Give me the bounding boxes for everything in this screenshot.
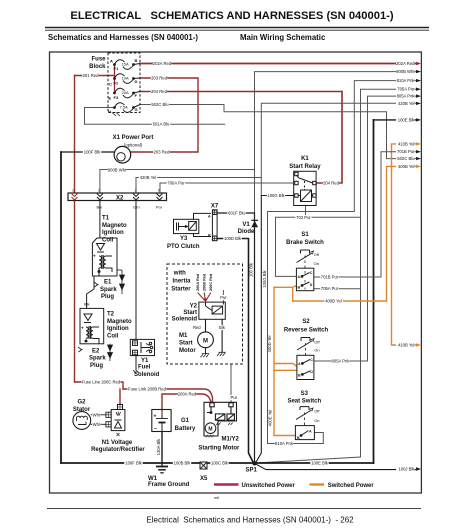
svg-text:T2: T2 <box>107 312 115 318</box>
svg-text:Pur: Pur <box>156 205 163 210</box>
svg-text:100G Blk: 100G Blk <box>262 269 267 287</box>
svg-text:Off: Off <box>314 252 320 257</box>
svg-text:Starter: Starter <box>171 287 191 293</box>
svg-text:2: 2 <box>98 189 100 193</box>
svg-text:Motor: Motor <box>179 348 196 354</box>
svg-text:Off: Off <box>314 409 320 414</box>
svg-text:On: On <box>314 348 319 353</box>
svg-text:Ignition: Ignition <box>107 326 129 332</box>
svg-text:202A Red: 202A Red <box>396 61 415 66</box>
svg-text:+: + <box>154 414 157 420</box>
svg-text:V1: V1 <box>242 222 250 228</box>
svg-text:B: B <box>298 285 301 289</box>
svg-text:10A: 10A <box>122 76 129 81</box>
svg-text:100D Blk: 100D Blk <box>224 236 242 241</box>
svg-text:Coil: Coil <box>107 333 119 339</box>
svg-text:Blk: Blk <box>219 325 226 330</box>
svg-text:G: G <box>135 107 138 112</box>
svg-text:701B Pur: 701B Pur <box>321 275 339 280</box>
svg-text:Fuse: Fuse <box>91 57 106 63</box>
svg-text:B: B <box>298 373 301 377</box>
svg-text:900B Wht: 900B Wht <box>396 69 415 74</box>
svg-text:900B Wht: 900B Wht <box>108 168 127 173</box>
svg-text:Grn: Grn <box>133 205 140 210</box>
svg-text:100B Blk: 100B Blk <box>174 461 192 466</box>
svg-text:Switched Power: Switched Power <box>328 483 375 489</box>
svg-text:100F Blk: 100F Blk <box>125 461 142 466</box>
svg-text:130A Blk: 130A Blk <box>156 438 161 455</box>
svg-text:Schematics and Harnesses (SN 0: Schematics and Harnesses (SN 040001-) <box>48 33 198 42</box>
svg-text:100C Blk: 100C Blk <box>211 461 229 466</box>
svg-text:200B Red: 200B Red <box>203 273 207 291</box>
svg-text:Inertia: Inertia <box>173 279 192 285</box>
svg-text:202A Red: 202A Red <box>153 61 172 66</box>
svg-text:Blk: Blk <box>97 205 103 210</box>
svg-text:Battery: Battery <box>175 426 196 432</box>
svg-text:400D Yel: 400D Yel <box>267 336 272 353</box>
svg-text:410B Yel: 410B Yel <box>398 343 415 348</box>
svg-text:6: 6 <box>158 189 160 193</box>
svg-text:Brake Switch: Brake Switch <box>286 240 324 246</box>
svg-text:204 Red: 204 Red <box>151 89 168 94</box>
svg-text:B: B <box>135 58 138 63</box>
svg-text:400B Yel: 400B Yel <box>325 299 342 304</box>
svg-text:F2: F2 <box>114 81 119 86</box>
svg-text:with: with <box>173 271 186 277</box>
svg-text:+: + <box>81 326 84 331</box>
svg-text:400B Yel: 400B Yel <box>398 164 415 169</box>
svg-text:501A Blu: 501A Blu <box>153 122 170 127</box>
svg-text:E2: E2 <box>92 348 100 354</box>
svg-text:M1: M1 <box>179 333 188 339</box>
svg-text:Wht: Wht <box>93 422 101 427</box>
svg-text:Frame Ground: Frame Ground <box>148 482 190 488</box>
svg-text:Magneto: Magneto <box>107 319 132 325</box>
svg-text:ELECTRICAL SCHEMATICS AND HA: ELECTRICAL SCHEMATICS AND HARNESSES (SN … <box>70 10 394 22</box>
svg-text:100F Blk: 100F Blk <box>84 150 101 155</box>
svg-text:X7: X7 <box>211 204 219 210</box>
svg-text:701B Pur: 701B Pur <box>397 149 415 154</box>
svg-text:203 Red: 203 Red <box>154 150 171 155</box>
svg-text:F3: F3 <box>114 95 119 100</box>
svg-text:Red: Red <box>193 325 201 330</box>
svg-text:C: C <box>310 271 313 275</box>
svg-text:Fuel: Fuel <box>138 365 151 371</box>
svg-text:X1 Power Port: X1 Power Port <box>113 135 154 141</box>
svg-text:Spark: Spark <box>100 287 117 293</box>
svg-text:A: A <box>298 275 301 279</box>
svg-text:M: M <box>203 338 208 344</box>
svg-text:502C Blu: 502C Blu <box>397 156 415 161</box>
svg-text:T1: T1 <box>102 216 110 222</box>
svg-text:H: H <box>108 109 111 114</box>
svg-text:200A Red: 200A Red <box>178 392 197 397</box>
svg-text:204 Red: 204 Red <box>323 181 340 186</box>
svg-text:Main Wiring Schematic: Main Wiring Schematic <box>240 33 326 42</box>
svg-text:Start: Start <box>183 310 197 316</box>
svg-text:D: D <box>135 79 138 84</box>
svg-text:On: On <box>314 418 319 423</box>
svg-text:15A: 15A <box>122 62 129 67</box>
svg-text:Wht: Wht <box>93 412 101 417</box>
svg-text:Start Relay: Start Relay <box>289 164 321 170</box>
svg-text:Blk: Blk <box>84 302 90 307</box>
svg-text:SP1: SP1 <box>246 468 258 474</box>
svg-text:410B Yel: 410B Yel <box>398 141 415 146</box>
svg-text:100E Blk: 100E Blk <box>311 461 329 466</box>
svg-text:203 Red: 203 Red <box>151 76 168 81</box>
svg-text:810A Pnk: 810A Pnk <box>397 78 416 83</box>
svg-text:M: M <box>208 426 212 432</box>
svg-text:206A Red: 206A Red <box>196 273 200 291</box>
svg-text:A: A <box>208 215 211 219</box>
svg-text:mil: mil <box>214 495 219 500</box>
svg-text:Solenoid: Solenoid <box>172 317 198 323</box>
svg-text:Electrical Schematics and Har: Electrical Schematics and Harnesses (SN … <box>146 516 354 525</box>
svg-text:Regulator/Rectifier: Regulator/Rectifier <box>91 447 145 453</box>
svg-text:201 Red: 201 Red <box>83 73 100 78</box>
svg-text:Reverse Switch: Reverse Switch <box>284 328 329 334</box>
svg-text:601F Blu: 601F Blu <box>228 211 245 216</box>
svg-text:100 Blk: 100 Blk <box>249 262 254 277</box>
svg-text:400E Yel: 400E Yel <box>268 410 273 427</box>
svg-text:502C Blu: 502C Blu <box>151 102 169 107</box>
svg-text:PTO Clutch: PTO Clutch <box>167 244 200 250</box>
svg-text:100G Blk: 100G Blk <box>267 193 285 198</box>
svg-text:Spark: Spark <box>89 356 106 362</box>
svg-text:Y3: Y3 <box>180 236 188 242</box>
svg-text:Fuse Link 200B Red: Fuse Link 200B Red <box>128 387 167 392</box>
svg-text:X5: X5 <box>200 476 208 482</box>
svg-text:Magneto: Magneto <box>102 223 127 229</box>
svg-text:D: D <box>310 370 313 374</box>
svg-text:420B Yel: 420B Yel <box>398 101 415 106</box>
svg-text:S2: S2 <box>302 319 310 325</box>
svg-text:702 Pur: 702 Pur <box>296 215 311 220</box>
svg-text:On: On <box>314 261 319 266</box>
svg-text:G1: G1 <box>181 418 190 424</box>
svg-text:Starting Motor: Starting Motor <box>198 446 240 452</box>
svg-text:(optional): (optional) <box>124 143 143 148</box>
svg-text:N1 Voltage: N1 Voltage <box>102 440 133 446</box>
svg-text:A: A <box>298 362 301 366</box>
svg-text:B: B <box>297 436 300 440</box>
svg-text:E1: E1 <box>104 280 112 286</box>
svg-text:Y2: Y2 <box>190 304 198 310</box>
svg-text:805A Pnk: 805A Pnk <box>397 94 416 99</box>
svg-text:Ignition: Ignition <box>102 230 124 236</box>
svg-text:A: A <box>110 59 113 64</box>
svg-text:Start: Start <box>179 341 193 347</box>
svg-text:D: D <box>310 283 313 287</box>
svg-text:20A: 20A <box>122 90 129 95</box>
svg-text:S3: S3 <box>301 391 309 397</box>
svg-text:100J Blk: 100J Blk <box>398 467 415 472</box>
svg-text:C: C <box>310 358 313 362</box>
svg-text:B: B <box>208 234 211 238</box>
svg-text:7.5A: 7.5A <box>120 105 129 110</box>
svg-text:1: 1 <box>72 189 74 193</box>
svg-text:100E Blk: 100E Blk <box>398 117 416 122</box>
svg-text:+: + <box>93 254 96 259</box>
svg-text:Fuse Line 200C Red: Fuse Line 200C Red <box>82 380 121 385</box>
svg-text:A: A <box>309 429 312 433</box>
svg-text:E: E <box>109 96 112 101</box>
svg-text:810A Pnk: 810A Pnk <box>275 441 294 446</box>
svg-text:C: C <box>109 82 112 87</box>
svg-text:Pur: Pur <box>220 295 227 300</box>
svg-text:Seat Switch: Seat Switch <box>287 399 321 405</box>
svg-text:3: 3 <box>135 189 137 193</box>
svg-text:X2: X2 <box>116 196 124 202</box>
svg-text:Diode: Diode <box>238 229 255 235</box>
svg-text:Off: Off <box>314 339 320 344</box>
svg-text:−: − <box>154 427 157 433</box>
svg-text:Y1: Y1 <box>141 358 149 364</box>
svg-text:F1: F1 <box>114 66 119 71</box>
svg-text:200C Red: 200C Red <box>209 273 213 291</box>
svg-text:M1/Y2: M1/Y2 <box>222 437 240 443</box>
svg-text:Unswitched Power: Unswitched Power <box>242 483 296 489</box>
svg-text:705A Pur: 705A Pur <box>321 286 339 291</box>
svg-text:Pur: Pur <box>231 395 238 400</box>
svg-text:420B Yel: 420B Yel <box>140 175 157 180</box>
svg-text:Plug: Plug <box>90 363 103 369</box>
svg-text:K1: K1 <box>301 156 309 162</box>
svg-text:Plug: Plug <box>101 294 114 300</box>
svg-text:705A Pur: 705A Pur <box>397 87 415 92</box>
svg-text:G2: G2 <box>77 400 86 406</box>
svg-text:S1: S1 <box>301 232 309 238</box>
svg-text:Block: Block <box>89 64 106 70</box>
svg-text:700A Pur: 700A Pur <box>167 181 185 186</box>
svg-text:Solenoid: Solenoid <box>134 372 160 378</box>
svg-text:805A Pnk: 805A Pnk <box>332 359 351 364</box>
